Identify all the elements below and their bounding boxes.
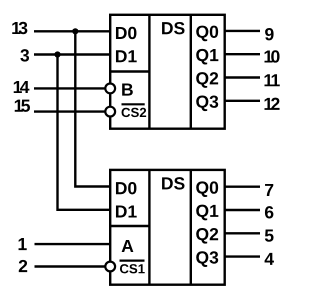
U2 divider DS/outputs: [190, 170, 192, 285]
label D0 (U1): [116, 27, 136, 39]
wire Q1 to pin 10: [225, 53, 260, 55]
U1 divider data/control: [110, 70, 149, 72]
label CS1: [120, 264, 145, 273]
pin number 12: [265, 98, 280, 110]
overline for CS2: [122, 103, 145, 105]
label Q1 (U2): [196, 205, 218, 221]
inversion bubble input B: [105, 84, 115, 94]
demultiplexer U1 outline: [110, 15, 225, 129]
wire Q3 to pin 12: [225, 100, 260, 102]
pin number 4: [265, 253, 274, 265]
wire Q2 to pin 11: [225, 76, 260, 78]
pin number 2: [19, 260, 27, 272]
wire Q0 to pin 7: [225, 185, 260, 187]
label Q0 (U2): [196, 181, 218, 197]
junction dot on pin 3 wire: [54, 51, 60, 57]
wire pin 13 to D0 (U1): [34, 30, 110, 32]
inversion bubble input CS2: [105, 107, 115, 117]
pin number 10: [265, 50, 280, 62]
demultiplexer U2 outline: [110, 170, 225, 285]
label CS2: [122, 108, 147, 117]
label Q2 (U1): [196, 72, 218, 88]
wire Q2 to pin 5: [225, 232, 260, 234]
pin number 9: [265, 28, 273, 40]
label DS (U2): [162, 177, 184, 189]
label DS (U1): [162, 22, 184, 34]
wire pin 15 to CS2: [34, 110, 105, 112]
wire pin 3 to D1 (U1): [34, 53, 110, 55]
U2 divider inputs/DS: [148, 170, 150, 285]
U2 divider data/control: [110, 225, 149, 227]
wire D1 branch down to U2 D1: [58, 55, 111, 210]
pin number 7: [265, 184, 273, 196]
label Q2 (U2): [196, 228, 218, 244]
wire D0 branch down to U2 D0: [75, 31, 110, 186]
pin number 6: [265, 206, 273, 218]
label A: [122, 240, 134, 252]
pin number 15: [15, 100, 30, 112]
inversion bubble input CS1: [105, 262, 115, 272]
junction dot on pin 13 wire: [72, 28, 78, 34]
pin number 14: [14, 81, 30, 93]
wire Q3 to pin 4: [225, 255, 260, 257]
label B: [122, 84, 133, 96]
label D1 (U1): [116, 50, 137, 62]
pin number 11: [265, 74, 280, 86]
wire Q1 to pin 6: [225, 209, 260, 211]
U1 divider DS/outputs: [190, 15, 192, 129]
pin number 13: [12, 22, 27, 34]
pin number 3: [20, 49, 29, 61]
wire pin 1 to A: [35, 243, 111, 245]
label Q3 (U1): [196, 95, 218, 111]
U1 divider inputs/DS: [148, 15, 150, 129]
label Q3 (U2): [196, 251, 218, 267]
pin number 5: [265, 230, 274, 242]
label Q0 (U1): [196, 26, 218, 42]
label D1 (U2): [116, 205, 137, 217]
wire pin 2 to CS1: [35, 265, 106, 267]
label Q1 (U1): [196, 49, 218, 65]
wire pin 14 to B: [34, 87, 105, 89]
wire Q0 to pin 9: [225, 30, 260, 32]
pin number 1: [19, 238, 27, 250]
overline for CS1: [120, 260, 145, 262]
label D0 (U2): [116, 182, 136, 194]
